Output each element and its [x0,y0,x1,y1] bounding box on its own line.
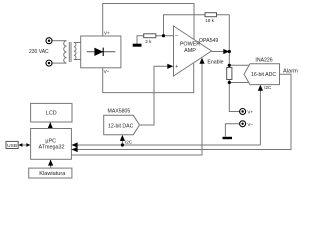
svg-text:V+: V+ [104,30,110,35]
Klawiatura box [29,168,72,178]
wire V- supply from rectifier bottom to op-amp V- pin [103,64,194,93]
wire op-amp output [212,51,226,53]
svg-text:I2C: I2C [264,85,272,90]
wire V- terminal to ground [225,124,239,137]
svg-text:POWER: POWER [180,42,200,48]
arrow up into LCD [48,122,53,128]
arrow I2C up into DAC [120,135,125,141]
wire DAC output to non-inverting input [140,66,171,125]
svg-text:V+: V+ [247,110,253,115]
transformer T1 [64,41,76,63]
op-amp OPA549 power amp [174,26,212,76]
junction node output [228,50,231,53]
svg-text:+: + [175,64,178,70]
wire I2C bus from uPC to INA226 [71,86,260,145]
svg-text:OPA549: OPA549 [199,38,218,44]
arrow USB right [26,143,30,147]
terminal V+ output [240,109,246,115]
svg-text:12-bit DAC: 12-bit DAC [108,123,134,129]
svg-text:USB: USB [7,143,17,149]
junction node inverting input [162,34,165,37]
terminal V- output [240,121,246,127]
terminal 230VAC bottom [46,60,52,66]
LCD box [31,103,72,122]
resistor 2k [144,34,156,38]
svg-text:LCD: LCD [46,111,57,117]
ground at 2k [133,44,142,47]
wire output node vertical rail [229,15,239,112]
INA226 16-bit ADC [244,64,280,85]
wire USB link [18,144,30,146]
arrow up into uPC from keyboard [48,160,53,166]
wire Klawiatura to uPC [50,160,52,168]
wire V+ supply from rectifier top to op-amp V+ pin [103,4,194,41]
wire feedback from inverting node up to 18k [164,15,230,36]
svg-text:V–: V– [247,122,253,127]
junction node shunt bottom [228,81,231,84]
svg-text:Enable: Enable [207,60,223,66]
svg-text:230 VAC: 230 VAC [29,49,49,55]
svg-text:–: – [175,33,178,39]
svg-text:16-bit ADC: 16-bit ADC [251,72,276,78]
svg-text:V–: V– [104,69,110,74]
svg-text:2 k: 2 k [145,39,152,44]
arrow non-inverting input [167,64,173,69]
junction node I2C-DAC branch [121,143,124,146]
bridge rectifier [81,36,121,68]
arrow Alarm into uPC [72,147,78,152]
svg-text:18 k: 18 k [205,18,214,23]
svg-text:ATmega32: ATmega32 [39,145,65,151]
wire inverting input [137,36,174,44]
uPC ATmega32 box [31,129,72,160]
wire transformer secondary to rectifier [74,43,81,60]
svg-text:AMP: AMP [184,48,196,54]
arrow Enable up [199,58,204,64]
svg-text:MAX5805: MAX5805 [108,108,131,114]
svg-text:Alarm: Alarm [283,68,298,74]
wire I2C branch to DAC [121,136,123,145]
junction node shunt top [228,64,231,67]
arrow USB left [19,143,23,147]
arrow I2C up into INA226 [258,85,263,91]
wire shunt top sense to INA226 [229,64,251,66]
wire uPC to LCD [49,123,51,129]
svg-text:I2C: I2C [125,140,133,145]
shunt resistor [227,68,232,80]
USB box [6,141,18,148]
arrow I2C into uPC [72,142,78,147]
svg-text:Klawiatura: Klawiatura [39,171,66,177]
arrow op-amp output [223,49,229,54]
svg-text:INA226: INA226 [255,58,272,64]
wire shunt bottom sense to INA226 [229,82,251,84]
terminal 230VAC top [46,38,52,44]
resistor 18k [205,13,217,17]
wire Alarm from INA226 to uPC [71,74,291,149]
ground at output [223,137,233,139]
wire 230VAC top terminal to transformer [52,40,66,42]
wire 230VAC bottom terminal to transformer [52,62,66,64]
wire Enable from uPC to op-amp [71,60,202,156]
MAX5805 12-bit DAC [104,115,140,134]
